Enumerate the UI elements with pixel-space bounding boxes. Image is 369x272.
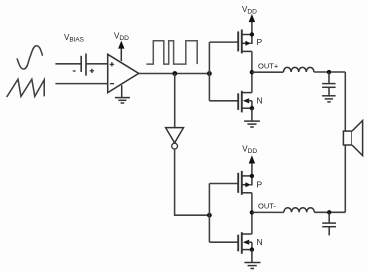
speaker LS1 — [343, 121, 362, 156]
wire: sawtooth source to comparator - input — [55, 83, 107, 85]
VDD arrow (lower bridge) — [249, 155, 255, 176]
wire: inductor to top-right corner — [314, 71, 345, 73]
wire: lower PMOS gate — [209, 183, 238, 185]
wire: OUT- node to lower NMOS drain — [251, 212, 253, 234]
junction node (output to inverter) — [172, 71, 177, 76]
svg-text:VDD: VDD — [242, 145, 257, 156]
svg-text:P: P — [257, 37, 263, 47]
wire: OUT+ node to upper NMOS drain — [251, 72, 253, 92]
svg-text:N: N — [257, 96, 263, 106]
svg-text:OUT+: OUT+ — [258, 62, 279, 71]
inductor L1 (upper filter) — [284, 67, 314, 72]
wire: upper NMOS gate — [209, 100, 238, 102]
junction node (upper gate bus) — [207, 71, 212, 76]
wire: OUT+ node to inductor — [252, 71, 284, 73]
junction node (upper filter cap tap) — [327, 70, 331, 74]
capacitor C2 (lower filter) — [322, 212, 336, 235]
junction node (upper NMOS source/body tie) — [250, 106, 254, 110]
wire: lower gate bus vertical — [208, 184, 210, 243]
wire: inductor to bottom-right corner — [314, 211, 345, 213]
sawtooth-wave source symbol — [7, 79, 45, 97]
wire: lower NMOS gate — [209, 241, 238, 243]
capacitor C1 (upper filter) — [322, 72, 336, 95]
wire: upper gate bus vertical — [208, 42, 210, 101]
wire: battery to comparator + input — [86, 63, 108, 65]
wire: inverter output down and right to lower gate bus — [175, 149, 210, 215]
label - (battery minus) — [73, 70, 76, 72]
wire: OUT- node to inductor — [252, 211, 284, 213]
junction node (lower gate bus) — [207, 213, 212, 218]
svg-text:N: N — [257, 237, 263, 247]
ground (lower NMOS source) — [244, 250, 260, 269]
ground (upper filter cap) — [322, 96, 336, 102]
wire: sine source to battery — [55, 63, 80, 65]
junction node (lower PMOS source/body tie) — [250, 174, 254, 178]
ground (comparator) — [115, 85, 130, 103]
PWM pulse-train symbol — [146, 41, 197, 64]
junction node (lower filter cap tap) — [327, 210, 331, 214]
svg-text:OUT-: OUT- — [258, 202, 276, 211]
svg-text:VBIAS: VBIAS — [64, 33, 84, 44]
battery/offset source VBIAS (short bar -) — [81, 54, 86, 76]
wire: upper PMOS gate — [209, 41, 238, 43]
svg-text:P: P — [257, 180, 263, 190]
wire: comparator output to gate bus — [139, 73, 210, 75]
junction node (lower NMOS source/body tie) — [250, 247, 254, 251]
transistor N (upper N-channel MOSFET) — [238, 91, 252, 113]
node OUT- junction — [250, 210, 254, 214]
sine-wave source symbol — [17, 46, 43, 69]
svg-text:VDD: VDD — [114, 32, 129, 43]
inverter U2 — [166, 128, 184, 149]
junction node (upper PMOS source/body tie) — [250, 32, 254, 36]
transistor N (lower N-channel MOSFET) — [238, 232, 252, 254]
label + (battery plus) — [90, 69, 94, 73]
transistor P (lower P-channel MOSFET) — [238, 171, 252, 195]
wire: right rail down to speaker — [344, 72, 346, 212]
wire: junction down to inverter input — [174, 74, 176, 128]
transistor P (upper P-channel MOSFET) — [238, 30, 252, 54]
op-amp comparator U1 — [108, 54, 139, 92]
node OUT+ junction — [250, 70, 254, 74]
VDD arrow (comparator supply) — [118, 41, 124, 61]
VDD arrow (upper bridge) — [249, 14, 255, 35]
svg-text:VDD: VDD — [242, 5, 257, 16]
wire: lower PMOS drain to OUT- node — [251, 193, 253, 213]
wire: upper PMOS drain to OUT+ node — [251, 51, 253, 72]
ground (upper NMOS source) — [244, 108, 260, 127]
inductor L2 (lower filter) — [284, 208, 314, 213]
